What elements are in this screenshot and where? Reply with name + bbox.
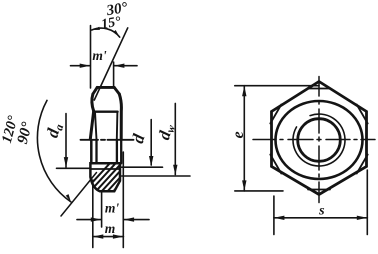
s arrow left xyxy=(274,216,285,220)
arc arrow bottom xyxy=(66,194,73,203)
left edge xyxy=(90,111,93,139)
m' bottom dimension line right xyxy=(124,219,149,221)
bore wall right xyxy=(116,140,118,163)
m' top dimension line right part xyxy=(114,65,137,67)
axis line (horizontal, dashed) xyxy=(81,139,134,141)
nut top-left chamfer cut xyxy=(93,87,97,94)
section blob outline xyxy=(90,163,120,191)
nut top face xyxy=(97,86,114,89)
corner chord lower-left xyxy=(270,155,281,174)
m' bottom extension line xyxy=(101,192,103,228)
120/90 cone construction line xyxy=(61,173,97,217)
bore circle xyxy=(298,119,341,162)
d dimension line xyxy=(150,120,152,166)
d arrow xyxy=(149,156,153,167)
angle dimension arc 30/15 xyxy=(92,28,120,37)
washer-boss right slant line xyxy=(116,112,119,140)
e bottom extension line xyxy=(235,190,283,192)
arc arrow right xyxy=(113,30,121,38)
facet line xyxy=(95,111,118,113)
washer-boss left slant line xyxy=(95,112,97,140)
m' top: left extension line xyxy=(90,26,92,89)
svg-text:e: e xyxy=(230,131,247,138)
m' top left arrow xyxy=(80,63,91,67)
bore wall left xyxy=(95,140,97,163)
svg-text:d: d xyxy=(128,132,149,146)
right outer wall below axis xyxy=(120,140,122,163)
section inner line (d_a washer boundary) xyxy=(90,168,120,170)
m arrow right xyxy=(113,234,124,238)
d_w leader line xyxy=(122,175,191,177)
m extension line right xyxy=(122,152,124,248)
svg-text:s: s xyxy=(318,204,325,219)
hexagon xyxy=(272,82,367,195)
e top extension line xyxy=(235,85,319,87)
d_a arrow xyxy=(64,157,68,168)
angle arc 120/90 xyxy=(37,100,70,201)
m' bottom left arrow xyxy=(91,217,102,221)
e arrow top xyxy=(242,86,246,97)
m bottom dimension line xyxy=(93,236,124,238)
right chamfer arc and right edge xyxy=(119,94,121,140)
corner chord upper-right xyxy=(357,105,368,124)
m' top right arrow xyxy=(114,63,125,67)
m' top dimension line left part xyxy=(71,65,91,67)
svg-text:da: da xyxy=(42,121,66,140)
corner chord top xyxy=(308,88,330,90)
s extension line left xyxy=(273,196,275,235)
s dimension line xyxy=(274,217,367,219)
e dimension line xyxy=(243,86,245,191)
corner chord upper-left xyxy=(270,105,281,124)
nut top-right chamfer cut xyxy=(114,87,119,94)
e arrow bottom xyxy=(242,180,246,191)
svg-text:15°: 15° xyxy=(100,14,122,32)
m arrow left xyxy=(93,234,104,238)
d_w arrow xyxy=(173,165,177,176)
svg-text:m: m xyxy=(105,221,116,236)
m extension line left xyxy=(92,180,94,248)
corner chord bottom xyxy=(308,189,330,191)
vertical centerline xyxy=(318,77,320,203)
left chamfer arc xyxy=(92,94,94,111)
svg-text:m': m' xyxy=(92,48,107,63)
chamfer circle xyxy=(276,101,363,179)
30 deg construction line xyxy=(94,28,127,100)
m' top right extension xyxy=(113,62,115,87)
d_a leader line xyxy=(57,167,91,169)
svg-text:m': m' xyxy=(105,201,120,216)
left outer wall below axis xyxy=(90,140,93,163)
corner chord lower-right xyxy=(357,155,368,174)
s extension line right xyxy=(366,170,368,235)
d leader line xyxy=(122,166,163,168)
m' bottom dimension line left xyxy=(77,219,101,221)
m' bottom right arrow xyxy=(124,217,135,221)
horizontal centerline xyxy=(253,139,375,141)
section hatching xyxy=(80,162,152,196)
d_w dimension line xyxy=(174,103,176,174)
s arrow right xyxy=(357,216,368,220)
thread arc (3/4 circle) xyxy=(293,114,345,166)
d_a dimension line xyxy=(65,114,67,168)
arc arrow left xyxy=(91,27,99,32)
